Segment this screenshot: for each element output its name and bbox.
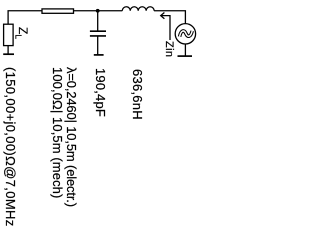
label capacitor value 190,4pF [94,68,107,117]
wire: transmission line to inductor [74,10,123,12]
ground (load) [3,53,14,55]
load impedance ZL (rectangle body) [4,24,14,45]
wire: inductor to source [154,11,185,24]
label Zin [163,41,174,57]
wire: ZL bottom to ground [7,46,9,55]
AC source circle [175,24,195,44]
label inductor value 636,6nH [131,69,144,120]
label input impedance spec [4,67,17,227]
AC source sine symbol [180,31,193,37]
inductor L1 (4 humps) [122,7,154,11]
wire: capacitor bottom to ground [97,36,99,55]
capacitor C1 plates [90,30,106,32]
transmission line TL1 (series line symbol) [42,9,74,13]
wire: top horizontal from load corner to transmission line [8,11,42,24]
Zin arrow (input impedance, pointing left) [161,16,170,40]
node junction dot at capacitor tap [96,9,100,13]
ground (capacitor) [94,54,104,56]
label transmission line values [51,67,78,207]
wire: source bottom to ground [184,44,186,56]
ground (source) [178,55,193,57]
wire: junction down to capacitor [97,11,99,31]
label ZL [11,27,28,39]
